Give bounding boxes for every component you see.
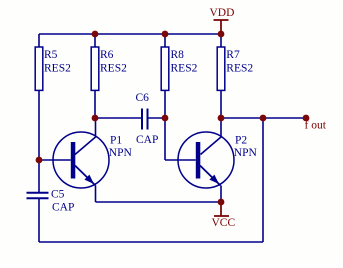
- wire R5 top lead: [38, 34, 40, 47]
- wire R6 top lead: [94, 34, 96, 47]
- svg-text:CAP: CAP: [52, 202, 74, 214]
- svg-text:R6: R6: [100, 49, 114, 61]
- svg-text:RES2: RES2: [100, 63, 127, 75]
- resistor R6 body: [91, 47, 99, 90]
- wire C6 right plate to R8 node: [148, 117, 165, 119]
- junction top rail R8: [162, 31, 169, 38]
- svg-text:VCC: VCC: [212, 217, 236, 229]
- wire C5 bottom plate down: [38, 199, 40, 243]
- svg-text:R7: R7: [226, 49, 240, 61]
- svg-text:RES2: RES2: [226, 63, 253, 75]
- capacitor C6 plates: [142, 109, 148, 130]
- node f out terminal: [303, 115, 310, 122]
- svg-text:f out: f out: [305, 120, 327, 132]
- wire R5 bottom to base node: [38, 90, 40, 160]
- svg-text:P2: P2: [235, 135, 247, 147]
- wire R8 bottom lead: [164, 90, 166, 118]
- wire P1 base: [39, 159, 71, 161]
- wire R6 bottom lead: [94, 90, 96, 118]
- svg-text:RES2: RES2: [171, 63, 198, 75]
- wire P2 emitter lead: [220, 186, 222, 203]
- svg-text:C5: C5: [51, 189, 65, 201]
- junction top rail VDD: [218, 31, 225, 38]
- wire R8 top lead: [164, 34, 166, 47]
- svg-text:CAP: CAP: [136, 134, 158, 146]
- resistor R7 body: [217, 47, 225, 90]
- svg-text:R5: R5: [44, 49, 58, 61]
- svg-text:VDD: VDD: [210, 7, 235, 19]
- resistor R8 body: [161, 47, 169, 90]
- wire bottom rail: [39, 241, 263, 243]
- resistor R5 body: [35, 47, 43, 90]
- wire right riser to f out: [262, 118, 264, 242]
- junction right riser f out: [260, 115, 267, 122]
- power symbol VDD: [214, 20, 229, 34]
- wire f out net: [221, 117, 306, 119]
- wire emitter rail to VCC node: [96, 201, 222, 203]
- svg-text:NPN: NPN: [234, 147, 258, 159]
- wire P2 base: [165, 159, 196, 161]
- svg-text:C6: C6: [136, 92, 150, 104]
- junction top rail R6: [92, 31, 99, 38]
- transistor Q P2 symbol: [178, 132, 234, 188]
- wire P1 emitter lead: [95, 186, 97, 203]
- junction P1 collector node: [92, 115, 99, 122]
- junction P2 collector node: [218, 115, 225, 122]
- power symbol VCC: [214, 202, 229, 216]
- capacitor C5 plates: [27, 193, 49, 199]
- transistor Q P1 symbol: [53, 132, 109, 188]
- junction VCC emitter node: [218, 199, 225, 206]
- svg-text:P1: P1: [110, 135, 122, 147]
- junction R8 bottom node: [162, 115, 169, 122]
- wire P2 collector lead: [201, 118, 222, 155]
- wire base node to C5 top plate: [38, 160, 40, 192]
- wire R7 top lead: [220, 34, 222, 47]
- wire R8 node down: [164, 118, 166, 160]
- wire R7 bottom lead: [220, 90, 222, 118]
- svg-text:NPN: NPN: [109, 147, 133, 159]
- wire P1 collector lead: [75, 118, 96, 155]
- svg-text:RES2: RES2: [44, 63, 71, 75]
- svg-text:R8: R8: [171, 49, 185, 61]
- wire VDD top rail: [39, 33, 221, 35]
- junction P1 base node: [36, 157, 43, 164]
- wire node P1 collector to C6 left plate: [95, 117, 141, 119]
